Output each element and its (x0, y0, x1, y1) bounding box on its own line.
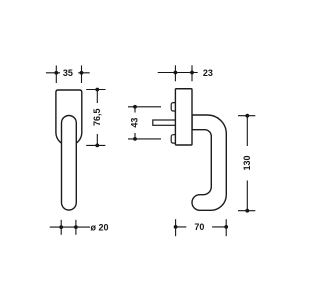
svg-text:130: 130 (242, 155, 252, 170)
svg-text:35: 35 (63, 68, 73, 78)
svg-text:70: 70 (194, 222, 204, 232)
svg-text:76,5: 76,5 (92, 108, 102, 126)
svg-text:23: 23 (203, 68, 213, 78)
svg-text:43: 43 (130, 118, 140, 128)
svg-text:ø 20: ø 20 (91, 222, 109, 232)
